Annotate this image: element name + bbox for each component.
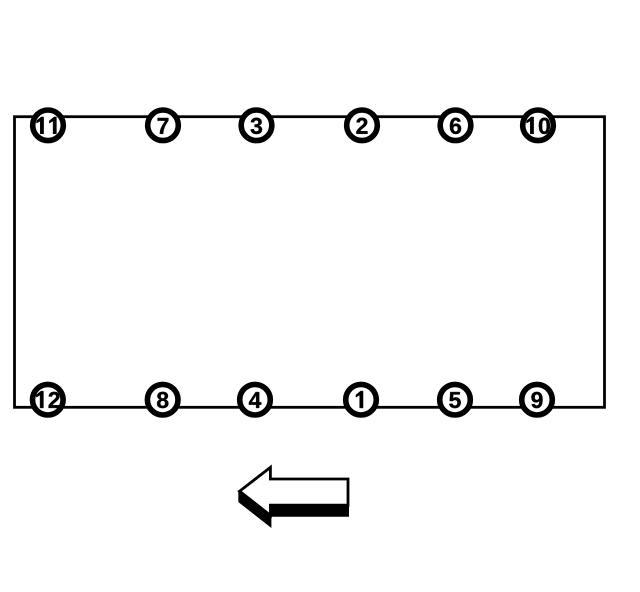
front-of-engine direction arrow (points left) bbox=[238, 467, 348, 526]
bolt 12 bbox=[33, 384, 64, 415]
arrow head 3d side face bbox=[238, 490, 270, 526]
bolt 8 bbox=[147, 384, 178, 415]
bolt 7 bbox=[148, 110, 179, 141]
bolt 10 bbox=[523, 110, 554, 141]
arrow body bbox=[240, 467, 348, 515]
arrow drop shadow bbox=[240, 478, 348, 526]
bolt 2 bbox=[347, 110, 378, 141]
bolt 11 bbox=[33, 110, 64, 141]
bolt 9 bbox=[522, 384, 553, 415]
bolt 5 bbox=[440, 384, 471, 415]
bolt 3 bbox=[241, 110, 272, 141]
cylinder head outline rectangle bbox=[15, 117, 605, 408]
bolt 1 bbox=[346, 384, 377, 415]
bolt 6 bbox=[440, 110, 471, 141]
bolt 4 bbox=[240, 384, 271, 415]
